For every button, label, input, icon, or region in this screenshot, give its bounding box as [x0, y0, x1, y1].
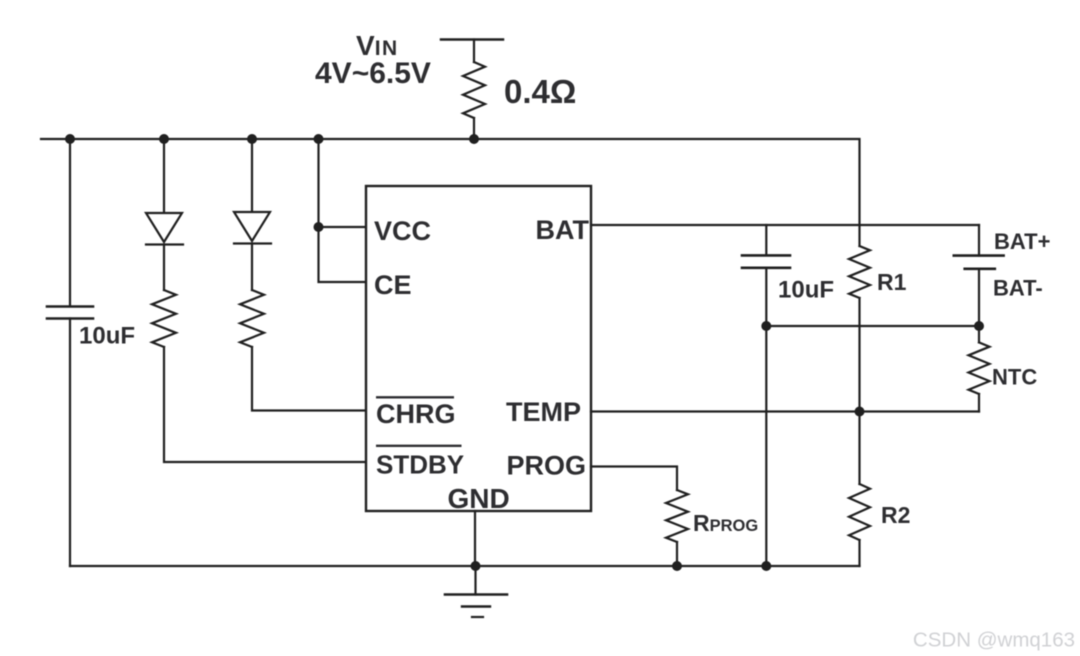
wire node to VCC	[319, 226, 367, 228]
svg-text:TEMP: TEMP	[506, 397, 581, 427]
svg-text:BAT+: BAT+	[994, 229, 1050, 254]
resistor Rprog	[666, 490, 688, 542]
svg-text:10uF: 10uF	[778, 277, 834, 304]
wire bus to D1	[163, 139, 165, 213]
wire bus to CE	[319, 139, 367, 282]
diode D1	[146, 213, 183, 245]
node C2-ground	[761, 561, 771, 571]
wire R3 to STDBY	[164, 347, 366, 462]
svg-text:VCC: VCC	[374, 216, 431, 246]
resistor R3	[152, 290, 176, 347]
wire ground rail	[70, 565, 860, 567]
svg-text:R1: R1	[877, 269, 907, 295]
wire VIN terminal to R0.4	[473, 40, 475, 63]
wire BAT- junction	[766, 325, 979, 327]
node GND	[471, 561, 481, 571]
wire C2 to ground rail	[765, 268, 767, 566]
wire PROG to Rprog	[591, 467, 677, 491]
node Rprog-ground	[672, 561, 682, 571]
svg-text:4V~6.5V: 4V~6.5V	[315, 57, 431, 90]
op-amp U1 charger IC box	[366, 186, 591, 511]
svg-text:R2: R2	[881, 502, 910, 528]
power terminal VIN bar	[441, 38, 503, 41]
node VCC-CE	[314, 222, 324, 232]
resistor 0.4ohm	[463, 62, 485, 118]
svg-text:RPROG: RPROG	[693, 510, 758, 536]
wire Rprog to ground rail	[676, 542, 678, 566]
node bus-R0.4	[469, 134, 479, 144]
resistor R4	[240, 290, 264, 347]
wire C1 to ground rail	[69, 319, 71, 567]
diode D2	[234, 212, 271, 244]
svg-text:GND: GND	[448, 483, 510, 514]
wire NTC to TEMP rail	[978, 394, 980, 412]
svg-text:PROG: PROG	[506, 451, 586, 481]
resistor NTC	[969, 342, 990, 394]
svg-text:BAT: BAT	[536, 215, 590, 245]
pin label STDBY with overline	[376, 446, 464, 480]
node bus-C1	[65, 134, 75, 144]
node C2-BATminus	[761, 321, 771, 331]
wire BAT- to NTC	[978, 326, 980, 342]
svg-text:CE: CE	[374, 270, 412, 300]
wire TEMP to R2	[858, 412, 860, 485]
resistor R2	[849, 484, 870, 540]
battery terminal BAT+ BAT-	[954, 225, 1004, 326]
wire R2 to ground rail	[858, 540, 860, 566]
pin label CHRG with overline	[376, 397, 456, 429]
svg-text:0.4Ω: 0.4Ω	[504, 73, 576, 110]
svg-text:CHRG: CHRG	[376, 399, 456, 429]
wire BAT to C2	[765, 225, 767, 255]
svg-text:STDBY: STDBY	[376, 450, 464, 480]
wire R4 to CHRG	[252, 347, 366, 411]
capacitor C2 10uF	[742, 255, 790, 267]
svg-text:CSDN @wmq163: CSDN @wmq163	[913, 629, 1075, 652]
wire input bus	[41, 139, 860, 225]
svg-text:NTC: NTC	[992, 365, 1037, 390]
wire D1 to R3	[163, 245, 165, 291]
node TEMP-R2	[855, 407, 865, 417]
node bus-VCC	[314, 134, 324, 144]
wire bus to D2	[251, 139, 253, 212]
wire bus to C1	[69, 139, 71, 306]
node bus-D1	[159, 134, 169, 144]
wire D2 to R4	[251, 244, 253, 291]
wire R1 to TEMP rail	[858, 298, 860, 412]
svg-text:10uF: 10uF	[79, 323, 135, 350]
wire BAT rail	[591, 224, 979, 226]
wire TEMP rail	[591, 410, 979, 412]
capacitor C1 10uF	[47, 307, 93, 319]
svg-text:BAT-: BAT-	[993, 276, 1043, 301]
wire BAT to R1	[858, 225, 860, 246]
node BATminus	[974, 321, 984, 331]
wire GND pin to ground rail	[474, 511, 476, 566]
wire R0.4 to bus	[473, 118, 475, 139]
resistor R1	[849, 246, 870, 298]
ground	[445, 566, 507, 617]
node bus-D2	[247, 134, 257, 144]
